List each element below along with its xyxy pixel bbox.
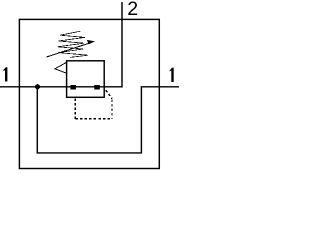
pilot line dashed right vertical xyxy=(111,99,113,119)
valve seat left xyxy=(70,85,76,90)
wire bypass U from node to port1-right xyxy=(37,87,179,153)
regulator valve body U1 xyxy=(67,61,105,98)
svg-text:2: 2 xyxy=(127,0,138,20)
spring (adjustable) xyxy=(58,31,89,57)
port label 1 left xyxy=(3,67,7,81)
enclosure frame xyxy=(19,19,159,168)
pilot line dashed left vertical xyxy=(74,98,76,119)
pilot line dashed bottom xyxy=(75,118,112,120)
valve seat right xyxy=(94,85,100,90)
pilot line dashed diagonal xyxy=(106,90,112,99)
node junction dot xyxy=(35,84,40,89)
port label 1 right xyxy=(170,68,174,82)
arrowhead of adjustment arrow xyxy=(87,40,95,44)
adjustment arrow xyxy=(47,43,92,57)
wire port1-left to port2 riser xyxy=(0,2,122,87)
relief vent triangle xyxy=(55,62,67,73)
